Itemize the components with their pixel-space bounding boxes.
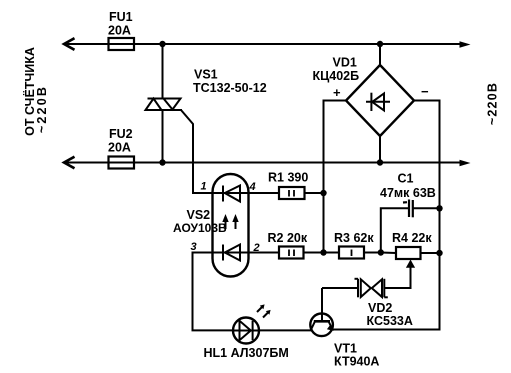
svg-text:R4 22к: R4 22к [392, 231, 432, 245]
svg-text:FU1: FU1 [109, 10, 133, 24]
svg-text:ТС132-50-12: ТС132-50-12 [193, 81, 267, 95]
svg-text:VS2: VS2 [187, 208, 211, 222]
svg-text:20А: 20А [108, 141, 131, 155]
svg-text:КЦ402Б: КЦ402Б [313, 69, 360, 83]
svg-text:~220В: ~220В [486, 82, 500, 125]
svg-text:VD1: VD1 [333, 56, 357, 70]
svg-text:+: + [333, 85, 341, 100]
svg-text:R2 20к: R2 20к [268, 231, 308, 245]
svg-text:4: 4 [249, 181, 256, 193]
svg-text:VD2: VD2 [368, 301, 392, 315]
svg-text:2: 2 [253, 242, 260, 254]
svg-text:3: 3 [191, 241, 197, 253]
svg-text:С1: С1 [398, 172, 414, 186]
svg-text:~220В: ~220В [35, 85, 49, 133]
svg-text:R1 390: R1 390 [268, 171, 308, 185]
svg-text:VS1: VS1 [194, 68, 218, 82]
svg-text:КС533А: КС533А [367, 314, 413, 328]
svg-text:АОУ103В: АОУ103В [173, 221, 227, 235]
svg-text:47мк 63В: 47мк 63В [380, 186, 436, 200]
svg-text:R3 62к: R3 62к [334, 231, 374, 245]
svg-text:FU2: FU2 [109, 127, 133, 141]
svg-text:1: 1 [201, 181, 207, 193]
svg-text:VT1: VT1 [334, 342, 357, 356]
svg-text:−: − [421, 84, 429, 99]
svg-text:КТ940А: КТ940А [334, 355, 379, 369]
svg-text:20А: 20А [108, 24, 131, 38]
svg-text:HL1 АЛ307БМ: HL1 АЛ307БМ [204, 346, 289, 360]
